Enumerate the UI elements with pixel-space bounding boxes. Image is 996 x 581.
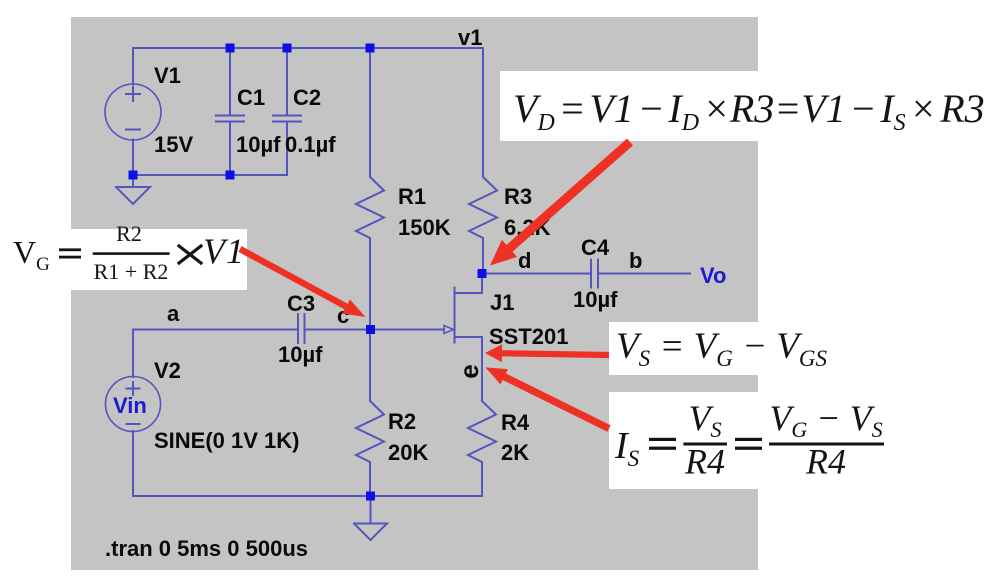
svg-text:R3: R3 — [504, 184, 532, 209]
svg-text:VS = VG − VGS: VS = VG − VGS — [616, 326, 828, 371]
svg-text:2K: 2K — [501, 440, 529, 465]
wire V2 bottom lead — [132, 431, 134, 496]
formula box VD background — [500, 71, 996, 141]
svg-text:R1: R1 — [398, 184, 426, 209]
wire gate from node c — [370, 329, 444, 331]
svg-text:150K: 150K — [398, 215, 451, 240]
transistor J1 channel — [454, 288, 456, 343]
voltage source V2 — [106, 377, 161, 432]
wire V1 bottom lead — [132, 140, 134, 176]
transistor J1 gate arrow — [444, 326, 454, 334]
svg-text:b: b — [629, 248, 642, 273]
ground below V1 — [116, 175, 150, 204]
svg-text:SINE(0 1V 1K): SINE(0 1V 1K) — [154, 428, 300, 453]
svg-text:IS: IS — [614, 425, 640, 471]
junction node top C1 — [226, 44, 235, 53]
capacitor C1 — [216, 48, 244, 175]
svg-text:C1: C1 — [237, 85, 265, 110]
wire source lead — [455, 337, 483, 401]
wire node d to C4 — [482, 273, 591, 275]
resistor R1 — [356, 48, 384, 330]
junction node bottom rail — [366, 492, 375, 501]
capacitor C3 — [298, 314, 305, 343]
node d junction — [478, 269, 487, 278]
svg-text:10µf: 10µf — [278, 342, 323, 367]
annotation arrow to node c — [239, 246, 366, 317]
wire top rail v1 — [133, 47, 483, 49]
svg-text:R4: R4 — [684, 442, 725, 482]
svg-text:Vin: Vin — [113, 393, 147, 418]
svg-text:R2: R2 — [388, 409, 416, 434]
svg-text:10µf: 10µf — [573, 287, 618, 312]
ground below bottom rail — [354, 496, 387, 540]
wire C4 to Vo — [598, 273, 690, 275]
svg-text:VG − VS: VG − VS — [769, 398, 882, 442]
resistor R3 — [469, 48, 497, 274]
svg-text:R4: R4 — [501, 410, 530, 435]
formula box VG background — [0, 229, 247, 290]
wire node a to C3 — [133, 329, 298, 331]
annotation arrow to source — [485, 344, 609, 362]
svg-text:20K: 20K — [388, 440, 428, 465]
svg-text:v1: v1 — [458, 25, 482, 50]
svg-text:R4: R4 — [805, 442, 846, 482]
svg-text:10µf: 10µf — [236, 132, 281, 157]
resistor R4 — [468, 401, 496, 496]
wire C3 to node c — [305, 329, 371, 331]
node c junction — [366, 325, 375, 334]
formula box IS background — [609, 392, 888, 489]
svg-text:.tran 0 5ms 0 500us: .tran 0 5ms 0 500us — [105, 536, 308, 561]
svg-text:d: d — [518, 248, 531, 273]
svg-text:J1: J1 — [490, 290, 514, 315]
junction node top C2 — [283, 44, 292, 53]
svg-text:V1: V1 — [203, 231, 245, 271]
resistor R2 — [356, 330, 384, 497]
capacitor C2 — [273, 48, 301, 175]
junction node C1 bottom — [226, 171, 235, 180]
wire drain lead — [455, 274, 483, 294]
svg-text:VS: VS — [689, 398, 722, 442]
svg-text:e: e — [454, 364, 484, 378]
svg-text:V1: V1 — [154, 63, 181, 88]
svg-text:0.1µf: 0.1µf — [285, 132, 336, 157]
formula box VS background — [609, 322, 888, 375]
svg-text:a: a — [167, 301, 180, 326]
svg-text:R1 + R2: R1 + R2 — [94, 259, 169, 284]
annotation arrow to node d — [490, 139, 633, 266]
wire bottom rail lower — [133, 495, 482, 497]
svg-text:R2: R2 — [116, 221, 142, 246]
gray schematic panel — [71, 17, 758, 570]
wire V2 upper lead — [132, 330, 134, 378]
svg-text:VG: VG — [13, 234, 50, 275]
capacitor C4 — [591, 260, 598, 288]
junction node V1 bottom — [129, 171, 138, 180]
annotation arrow to node e — [485, 367, 610, 431]
svg-text:C3: C3 — [287, 291, 315, 316]
junction node top R1 — [366, 44, 375, 53]
svg-text:15V: 15V — [154, 132, 193, 157]
svg-text:VD = V1 − ID ×R3=V1 − IS × R3: VD = V1 − ID ×R3=V1 − IS × R3 — [513, 86, 985, 136]
svg-text:Vo: Vo — [700, 263, 726, 288]
voltage source V1 — [105, 84, 161, 140]
svg-text:V2: V2 — [154, 358, 181, 383]
svg-text:C2: C2 — [293, 85, 321, 110]
wire V1 top lead — [132, 48, 134, 85]
svg-text:C4: C4 — [581, 235, 610, 260]
wire bottom rail upper — [133, 174, 287, 176]
